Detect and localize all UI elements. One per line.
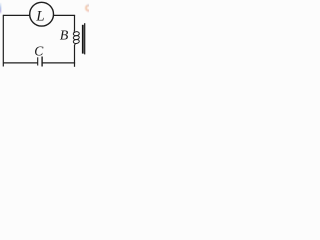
wire top-left horizontal [3,14,30,16]
coil B [73,30,79,46]
wire top-right horizontal [53,14,75,16]
wire left vertical [2,15,4,67]
wire bottom right [42,62,75,64]
capacitor C plate left [37,57,39,65]
lamp L (circle) [30,2,54,26]
svg-text:B: B [60,29,69,44]
capacitor C plate right [41,57,43,67]
wire right vertical upper [74,15,76,31]
wire right vertical lower [74,45,76,67]
svg-text:L: L [35,8,44,24]
wire bottom left [3,62,37,64]
core bar right [84,23,85,54]
blue smudge artifact left edge [0,3,1,14]
orange smudge artifact right edge [86,4,91,12]
core bar left [82,25,84,54]
svg-text:C: C [34,43,44,58]
